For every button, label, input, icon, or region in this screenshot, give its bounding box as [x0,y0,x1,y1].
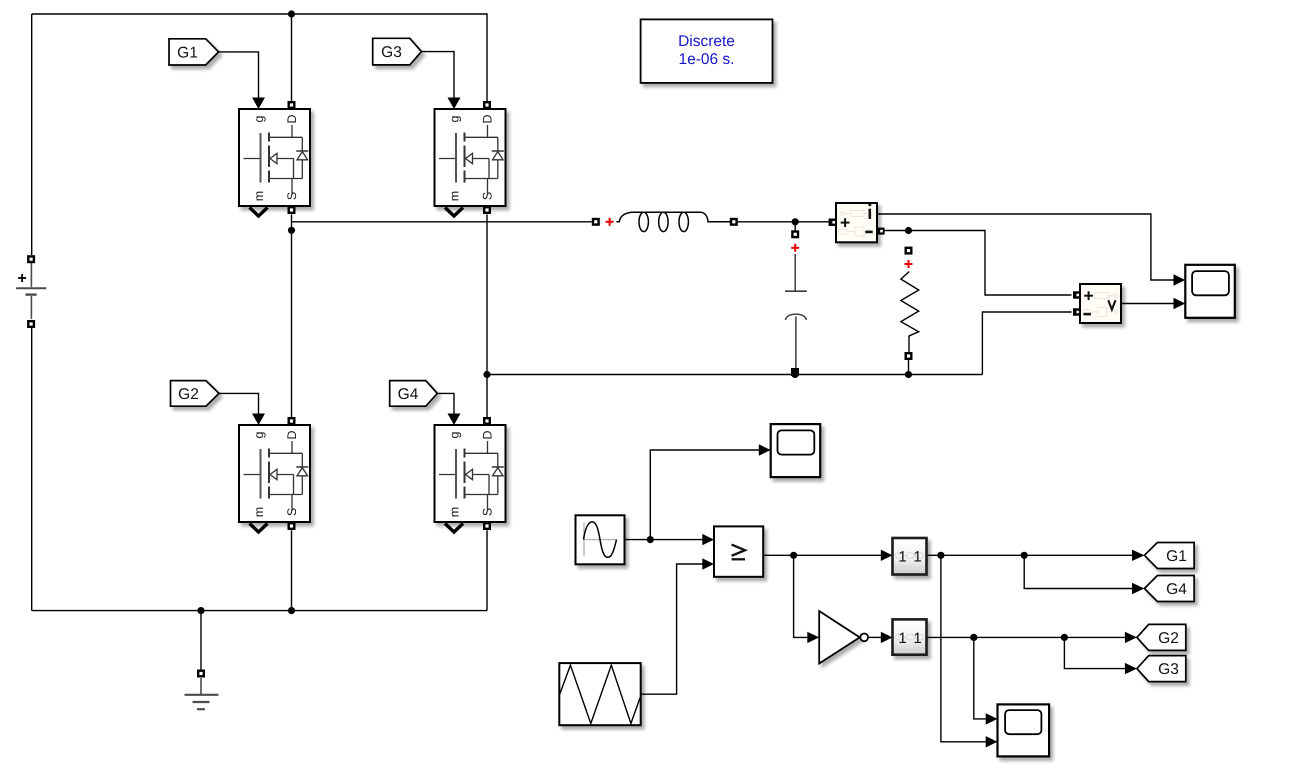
mosfet Q2 [239,414,310,533]
current sensor I [829,203,885,242]
svg-text:1: 1 [898,630,906,647]
wire row2 to G2 goto [927,636,1126,638]
rate transition block 1 1 lower [893,619,927,654]
wire to NOT gate [794,555,808,637]
node row1 junction a [937,552,944,559]
svg-text:1: 1 [913,630,921,647]
wire G2 from tag to Q2 gate [219,393,259,414]
wire v signal to scope [1121,303,1174,305]
svg-text:1: 1 [913,549,921,566]
node row2 junction b [1061,634,1068,641]
triangle wave source [559,663,640,725]
svg-text:1: 1 [898,549,906,566]
node top rail junction [288,10,295,17]
wire G3 from tag to Q3 gate [421,52,454,99]
from tag G2 [171,381,220,407]
sine wave source [576,515,625,564]
node sine junction [647,536,654,543]
wire sine to scope1 [650,450,759,540]
node row1 junction b [1021,552,1028,559]
node phase B junction [483,371,490,378]
node capacitor bottom junction [791,371,798,378]
resistor R [901,247,919,375]
battery DC source [16,255,46,328]
wire Q3 source to Q4 drain [486,214,488,417]
goto tag G2 [1137,624,1186,650]
svg-text:G1: G1 [177,44,198,61]
rate transition block 1 1 upper [893,538,927,575]
svg-text:Discrete: Discrete [678,33,735,50]
node phase A junction [288,227,295,234]
node capacitor tap junction [792,218,799,225]
svg-text:G4: G4 [1166,581,1187,598]
scope1 top middle [771,424,821,477]
svg-text:G3: G3 [381,44,402,61]
wire Q1 source to Q2 drain [291,214,293,417]
relational operator >= [714,526,763,576]
scope main [1185,265,1235,318]
from tag G1 [169,39,219,65]
node Q2 source ground junction [288,607,295,614]
wire row1 to G1 goto [927,554,1133,556]
wire Q4 source drop [486,530,488,610]
wire battery top [31,14,33,255]
from tag G3 [373,38,422,65]
wire row2 to G3 goto [1064,637,1125,668]
mosfet Q4 [435,414,506,533]
wire i signal to scope [877,214,1174,280]
ground [185,670,219,710]
wire battery bottom [31,328,33,611]
wire G4 from tag to Q4 gate [437,393,454,414]
wire load bottom rail [487,374,982,376]
wire inductor to current sensor [738,221,829,223]
wire row1 to G4 goto [1024,555,1132,588]
svg-text:G3: G3 [1158,661,1179,678]
wire v- sense [982,312,1071,375]
svg-text:G2: G2 [178,386,199,403]
node row2 junction a [970,634,977,641]
from tag G4 [390,381,438,407]
wire top rail [32,14,487,101]
wire Q1 drain drop [291,14,293,101]
node relational out junction [790,552,797,559]
wire ground tap [200,611,202,670]
inductor L [592,212,738,231]
mosfet Q1 [239,98,310,217]
powergui annotation Discrete 1e-06 s. [641,19,773,83]
wire row1 to scope2 [941,555,986,742]
wire sine to relational [625,539,703,541]
wire G1 from tag to Q1 gate [219,52,259,99]
node ground junction [197,607,204,614]
svg-text:G4: G4 [398,386,419,403]
scope2 bottom [998,704,1050,756]
svg-text:G2: G2 [1158,630,1179,647]
mosfet Q3 [435,98,506,217]
voltage sensor V [1073,284,1121,323]
wire ground rail [32,610,487,612]
svg-text:G1: G1 [1166,548,1187,565]
goto tag G3 [1137,656,1186,682]
wire row2 to scope2 [974,637,986,719]
NOT gate [819,611,868,664]
goto tag G4 [1144,576,1194,602]
goto tag G1 [1144,543,1194,569]
svg-text:1e-06 s.: 1e-06 s. [678,51,734,68]
wire capacitor stub [794,222,796,231]
wire current sensor minus to v+ sense [885,231,1072,296]
wire relational out [763,554,881,556]
node resistor top junction [905,227,912,234]
wire Q2 source drop [291,530,293,610]
capacitor C [785,230,807,376]
wire NOT out [868,636,881,638]
wire triangle to relational [641,564,703,694]
wire phase A rail [292,221,592,223]
node resistor bottom junction [905,371,912,378]
